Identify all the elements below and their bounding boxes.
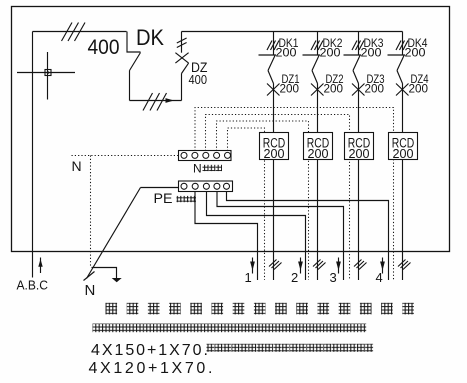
svg-text:200: 200 [308, 146, 329, 161]
wire: branch 3 through breaker to RCD [353, 71, 359, 84]
svg-text:N: N [193, 162, 202, 176]
RCD U3 residual current device 200 [345, 133, 374, 160]
wire: neutral (dotted) from N terminal to branch 3 outlet [206, 115, 350, 281]
wire: top distribution bus [182, 31, 403, 33]
svg-text:PE: PE [154, 191, 173, 206]
supply direction arrow (up) [40, 258, 42, 274]
svg-text:200: 200 [361, 46, 382, 60]
circuit breaker DZ 400 (main) [181, 74, 183, 101]
3-phase slash marks on DK-DZ wire [143, 93, 167, 111]
svg-text:3: 3 [330, 270, 337, 285]
wire: neutral (dotted) from N terminal to branch 2 outlet [217, 121, 309, 280]
wire: incoming neutral (dotted) to N strip [72, 155, 179, 157]
3-pole slash marks on branch 1 [267, 41, 279, 51]
3-phase slash marks on branch 4 outlet cable [398, 260, 411, 270]
wire: branch 3 phase from RCD to outlet [358, 160, 360, 281]
wire: PE from PE terminal to branch 2 outlet [207, 189, 306, 280]
svg-text:200: 200 [264, 146, 285, 161]
wire: branch 4 phase from RCD to outlet [402, 160, 404, 281]
knife switch DK3 200 [344, 54, 362, 56]
svg-text:200: 200 [349, 146, 370, 161]
3-pole slash marks on branch 4 [396, 41, 408, 51]
wire: incoming horizontal feeder to DK [33, 31, 127, 33]
svg-text:DK: DK [136, 25, 164, 50]
wire: branch 4 drop from bus [402, 32, 404, 56]
wire: PE bonding conductor to earth [141, 187, 179, 189]
svg-text:200: 200 [276, 46, 297, 60]
wire: PE from PE terminal to branch 1 outlet [195, 189, 258, 280]
RCD U1 residual current device 200 [260, 133, 289, 160]
N terminal strip (N 端子板) [179, 151, 232, 161]
knife switch DK [127, 32, 141, 53]
note line 1: 注：上图为总配电箱的接线图。由电源接入总配电箱的电缆为橡套软电缆 [93, 324, 102, 333]
knife switch DK1 200 [259, 54, 277, 56]
svg-text:4X120+1X70.: 4X120+1X70. [89, 360, 216, 377]
wire: branch 3 drop from bus [358, 32, 360, 56]
svg-text:200: 200 [280, 82, 300, 96]
wire: incoming supply riser A.B.C [32, 32, 34, 278]
wire: branch 1 phase from RCD to outlet [273, 160, 275, 281]
PE terminal strip (PE 端子板) [179, 181, 233, 192]
svg-text:400: 400 [88, 35, 120, 59]
wire: branch 2 drop from bus [317, 32, 319, 56]
wire: neutral (dotted) from N terminal to branch 1 outlet [228, 128, 265, 280]
wire: neutral (dotted) from N terminal to branch 4 outlet [195, 108, 394, 281]
earthing point: strike tick [84, 272, 95, 281]
title: 总配电箱设分路漏电保护器系统图 [106, 303, 118, 315]
outlet cable arrow 2 [300, 258, 302, 274]
3-phase slash marks on branch 2 outlet cable [313, 260, 326, 270]
svg-text:4: 4 [376, 270, 383, 285]
svg-text:N: N [85, 282, 96, 299]
RCD U2 residual current device 200 [304, 133, 333, 160]
outlet cable arrow 4 [382, 258, 384, 274]
svg-text:N: N [72, 158, 82, 174]
svg-text:1: 1 [245, 270, 252, 285]
RCD U4 residual current device 200 [389, 133, 418, 160]
circuit breaker DZ3 200 [352, 84, 365, 96]
knife switch DK4 200 [388, 54, 406, 56]
3-phase slash marks on branch 1 outlet cable [269, 260, 282, 270]
svg-text:A.B.C: A.B.C [17, 278, 49, 293]
earth electrode symbol [92, 268, 117, 279]
svg-text:2: 2 [291, 270, 298, 285]
drawing border frame [12, 7, 450, 252]
wire: branch 1 drop from bus [273, 32, 275, 56]
3-phase slash marks on incoming feeder [62, 23, 86, 42]
wire: branch 4 through breaker to RCD [397, 71, 403, 84]
3-phase slash marks on branch 3 outlet cable [354, 260, 367, 270]
3-pole slash marks on branch 3 [352, 41, 364, 51]
svg-text:200: 200 [409, 82, 429, 96]
wire: PE from PE terminal to branch 3 outlet [217, 189, 344, 280]
svg-text:400: 400 [189, 73, 208, 87]
wire: branch 1 through breaker to RCD [268, 71, 274, 84]
circuit breaker DZ4 200 [396, 84, 409, 96]
svg-text:200: 200 [365, 82, 385, 96]
outlet cable arrow 1 [252, 258, 254, 274]
knife switch DK2 200 [303, 54, 321, 56]
svg-text:4X150+1X70.: 4X150+1X70. [91, 342, 210, 359]
wire: PE from PE terminal to branch 4 outlet [227, 189, 389, 280]
circuit breaker DZ1 200 [267, 84, 280, 96]
wire: branch 2 through breaker to RCD [312, 71, 318, 84]
outlet cable arrow 3 [338, 258, 340, 274]
3-pole slash marks on branch 2 [311, 41, 323, 51]
svg-text:200: 200 [405, 46, 426, 60]
svg-text:200: 200 [320, 46, 341, 60]
CAD centre-mark crosshair [17, 72, 75, 74]
wire: branch 2 phase from RCD to outlet [317, 160, 319, 281]
svg-text:200: 200 [324, 82, 344, 96]
circuit breaker DZ2 200 [311, 84, 324, 96]
svg-text:200: 200 [393, 146, 414, 161]
wire: DK output to DZ with flow arrow [130, 100, 182, 102]
